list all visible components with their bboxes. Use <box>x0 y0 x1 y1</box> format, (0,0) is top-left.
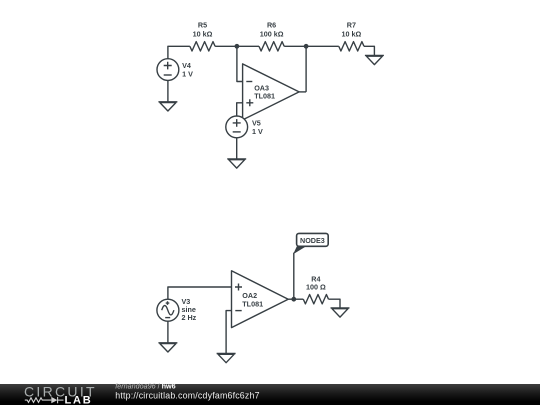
wire R5 to R6 <box>215 45 259 47</box>
svg-text:TL081: TL081 <box>254 92 275 101</box>
op-amp OA2 <box>232 271 294 328</box>
svg-text:TL081: TL081 <box>242 299 263 308</box>
wire OA3 output to node <box>305 46 307 92</box>
wire node to NODE3 flag <box>293 253 295 300</box>
svg-text:LAB: LAB <box>65 394 93 405</box>
svg-text:100 Ω: 100 Ω <box>306 283 326 292</box>
footer bar <box>0 384 540 405</box>
wire R4 to ground <box>329 299 341 308</box>
svg-text:2 Hz: 2 Hz <box>182 313 197 322</box>
node NODE3 flag <box>293 233 328 254</box>
svg-text:R7: R7 <box>347 21 356 30</box>
wire V5 to ground <box>236 138 238 159</box>
wire R6 to R7 <box>284 45 339 47</box>
wire R7 to ground <box>364 46 374 55</box>
wire V3 to ground <box>167 321 169 343</box>
ground (R4) <box>331 308 350 317</box>
svg-text:10 kΩ: 10 kΩ <box>342 29 362 38</box>
sine source V3 <box>157 297 197 322</box>
ground (V5) <box>227 159 246 168</box>
svg-text:1 V: 1 V <box>252 127 263 136</box>
junction node at R5/R6 <box>235 44 240 49</box>
ground (R7) <box>365 55 384 64</box>
svg-text:V4: V4 <box>182 61 191 70</box>
resistor R7 <box>339 21 364 51</box>
ground (OA2) <box>217 354 236 363</box>
resistor R4 <box>303 275 328 304</box>
wire OA2 inverting input to ground <box>226 311 231 354</box>
CircuitLab logo resistor-diode glyph <box>25 397 64 403</box>
svg-text:100 kΩ: 100 kΩ <box>260 29 284 38</box>
svg-text:http://circuitlab.com/cdyfam6f: http://circuitlab.com/cdyfam6fc6zh7 <box>115 391 259 401</box>
wire V4 top to R5 <box>168 46 190 58</box>
ground (V4) <box>158 102 177 111</box>
junction node OA2 output <box>291 297 296 302</box>
wire inverting input OA3 <box>237 46 243 81</box>
wire V3 to OA2 noninverting input <box>168 287 232 299</box>
resistor R6 <box>259 21 284 51</box>
voltage source V5 <box>226 116 263 138</box>
svg-text:R5: R5 <box>198 21 207 30</box>
wire node to R4 <box>294 298 304 300</box>
svg-text:NODE3: NODE3 <box>300 236 325 245</box>
ground (V3) <box>158 343 177 352</box>
junction node at R6/R7 output <box>304 44 309 49</box>
op-amp OA3 <box>243 64 307 120</box>
wire noninverting input OA3 to V5 <box>237 103 243 116</box>
svg-text:fernandoa96 / hw6: fernandoa96 / hw6 <box>115 382 175 391</box>
voltage source V4 <box>157 59 193 81</box>
svg-text:10 kΩ: 10 kΩ <box>193 29 213 38</box>
svg-text:R6: R6 <box>267 21 276 30</box>
wire V4 to ground <box>167 81 169 102</box>
resistor R5 <box>190 21 215 51</box>
svg-text:1 V: 1 V <box>182 70 193 79</box>
